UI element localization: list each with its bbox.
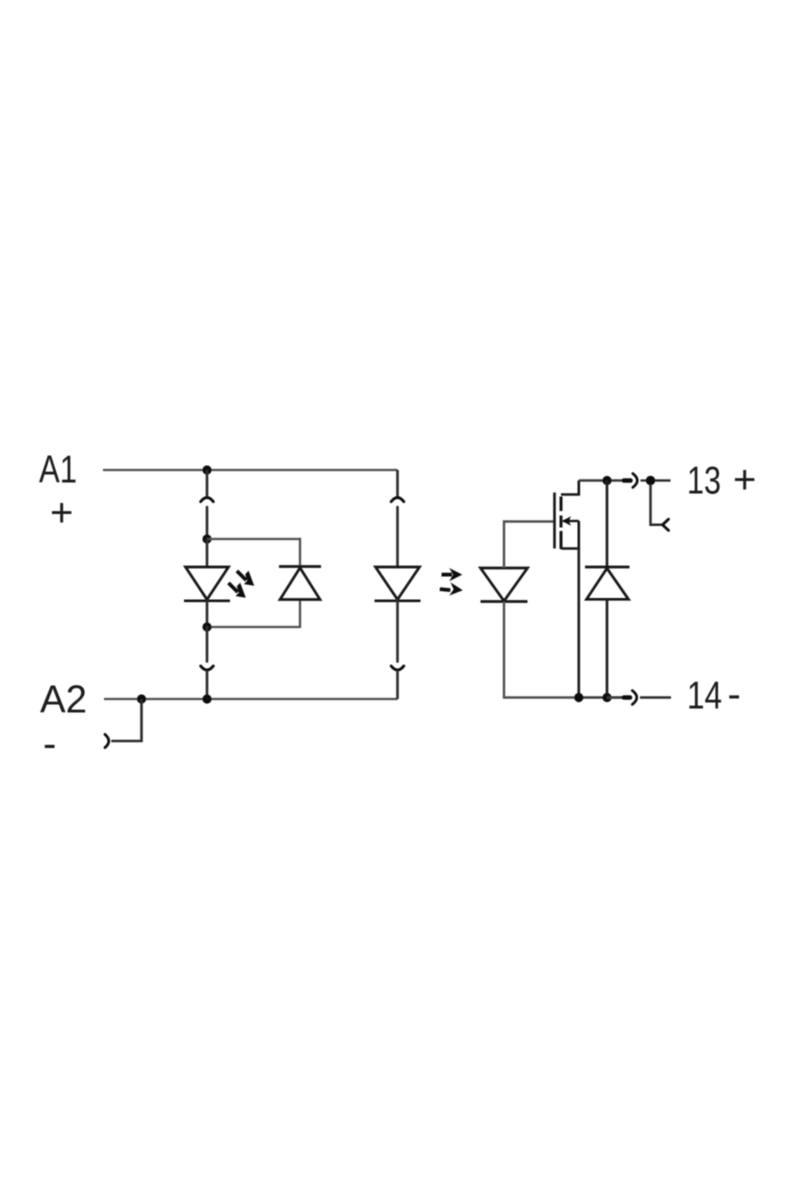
wire reverse diode column upper: [299, 538, 301, 567]
photodiode V4: [481, 568, 528, 602]
svg-text:-: -: [728, 673, 741, 717]
wire reverse diode column lower: [299, 600, 301, 629]
wire terminal 13 stub to label: [655, 479, 671, 481]
plug contact chevron down (series branch): [391, 666, 404, 670]
wire emitter LED cathode lead: [396, 600, 399, 662]
wire photodiode anode up + gate wire: [504, 522, 555, 569]
terminal 13 clamp chevron: [663, 519, 669, 530]
wire status branch to LED anode node: [206, 507, 209, 539]
node J4 A2 clamp branch: [137, 694, 146, 703]
terminal 13 contact stub: [624, 478, 631, 483]
terminal 13 clamp drop: [651, 484, 663, 525]
node J8 diode / bottom rail: [602, 693, 611, 702]
emission arrow 2 of status LED: [227, 582, 246, 598]
node J7 source / bottom rail: [574, 693, 583, 702]
plug contact chevron up (series branch): [391, 498, 404, 502]
node J1 A1-rail / status branch: [202, 465, 211, 474]
freewheel diode V5 column lower: [606, 599, 609, 697]
wire status LED cathode lead: [206, 600, 209, 627]
svg-text:A1: A1: [39, 449, 77, 492]
wire series LED branch from A1 corner: [396, 470, 399, 497]
node J3 status-LED cathode / branch: [202, 622, 211, 631]
wire status LED anode lead: [206, 539, 209, 567]
terminal point 13: [646, 476, 655, 485]
reverse protection diode V2 (points up, bar on top): [279, 567, 321, 600]
wire status branch lower segment: [206, 627, 209, 662]
optocoupler light arrow 1: [442, 568, 463, 581]
terminal 14 contact arc: [632, 691, 637, 705]
wire arc to terminal 13 point: [641, 479, 648, 481]
emission arrow 1 of status LED: [236, 570, 255, 586]
node J2 status-LED anode / clamp-diode branch: [202, 534, 211, 543]
svg-text:14: 14: [687, 675, 722, 718]
plug contact chevron up (status branch): [201, 498, 214, 502]
wire A2 clamp drop: [111, 699, 141, 741]
plug contact chevron down (status branch): [201, 666, 214, 670]
wire bottom rail to terminal 14: [607, 696, 623, 698]
MOSFET T1 source connection: [561, 521, 579, 549]
terminal 13 contact arc: [633, 474, 638, 488]
optocoupler light arrow 2: [440, 582, 463, 595]
wire photodiode cathode down to output rail: [504, 602, 579, 698]
MOSFET T1 channel dashes: [560, 497, 563, 550]
node J6 drain rail / freewheel diode: [602, 476, 611, 485]
wire terminal 14 stub to label: [640, 696, 671, 698]
wire A2 rail: [104, 698, 398, 700]
freewheel diode V5 (points up, bar on top): [585, 567, 630, 599]
wire status branch to A2 rail: [206, 671, 209, 700]
svg-text:13: 13: [687, 460, 721, 503]
wire output bottom rail: [579, 696, 623, 698]
wire A1 rail: [103, 469, 398, 471]
optocoupler emitter LED V3: [375, 567, 421, 601]
MOSFET T1 gate bar: [553, 493, 556, 549]
svg-text:-: -: [43, 722, 56, 766]
svg-text:+: +: [50, 491, 73, 535]
wire branch top (to reverse diode): [207, 538, 300, 540]
wire series branch to emitter LED: [396, 507, 399, 567]
MOSFET T1 body arrow: [562, 516, 579, 525]
svg-text:A2: A2: [40, 679, 87, 722]
node J5 A2 / status branch: [202, 694, 211, 703]
wire MOSFET source to output rail: [577, 549, 580, 698]
status LED V1 (triangle + cathode bar): [184, 567, 230, 601]
wire status branch upper segment: [206, 470, 209, 497]
freewheel diode V5 column upper: [606, 481, 609, 568]
MOSFET T1 drain connection: [561, 481, 579, 495]
wire drain rail: [579, 479, 623, 481]
wire branch bottom (from reverse diode): [207, 626, 300, 628]
terminal 14 contact stub: [624, 695, 630, 700]
svg-text:+: +: [733, 458, 756, 502]
clamp chevron A2: [105, 734, 109, 747]
wire series branch to A2 rail corner: [396, 671, 399, 700]
